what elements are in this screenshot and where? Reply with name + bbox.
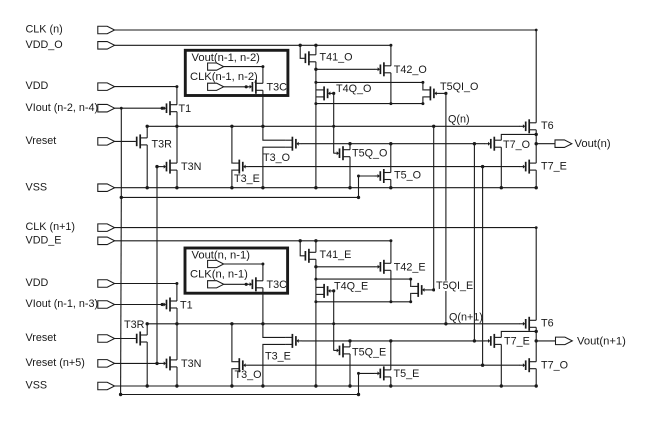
junction net A even x474 <box>473 339 476 342</box>
wire VDD_O rail <box>115 44 391 46</box>
junction rail x316 bottom (even) <box>314 300 317 303</box>
wire Vreset to T3R gate <box>115 140 136 142</box>
wire T5QI_E source corner <box>410 293 413 301</box>
wire T3_E drain to Q node <box>231 126 233 163</box>
junction T1/T3N on Q(n+1) <box>175 322 178 325</box>
junction on net A x474 <box>473 142 476 145</box>
junction CLK corner <box>535 29 538 32</box>
svg-text:Q(n+1): Q(n+1) <box>449 311 483 323</box>
wire CLK(n) to T6 drain <box>115 30 537 123</box>
transistor T5_E <box>383 366 385 380</box>
transistor T3_O (lower even) <box>238 358 240 372</box>
port VSS (even) <box>98 382 115 390</box>
port Vout(n) <box>555 140 572 148</box>
wire y103.6 to T5QI_O source <box>316 103 423 105</box>
wire T5QI_E gate stub <box>428 289 434 291</box>
junction V2 on Q(n+1) <box>444 322 447 325</box>
junction second rail left <box>120 196 123 199</box>
junction VDD corner <box>175 85 178 88</box>
junction T5Q_O source on VSS <box>348 186 351 189</box>
wire net A (T3_O gate to T7_O gate) <box>302 143 485 145</box>
junction T41_O drain on VDD_O <box>314 44 317 47</box>
junction T3_E drain on Q <box>230 125 233 128</box>
junction T4Q_O gate corner <box>332 92 335 95</box>
svg-text:T4Q_E: T4Q_E <box>334 280 368 292</box>
wire T3_O source to VSS <box>263 147 286 188</box>
junction T5QI_E drain corner <box>409 278 412 281</box>
svg-text:VDD: VDD <box>26 80 49 92</box>
transistor T3C (even) <box>255 277 257 291</box>
svg-text:VIout (n-1, n-3): VIout (n-1, n-3) <box>26 298 99 310</box>
svg-text:T3C: T3C <box>267 279 288 291</box>
wire VDD_E rail <box>115 240 391 242</box>
junction T3N gate / reset column <box>155 165 158 168</box>
wire T5_E drain to net A even <box>390 341 392 370</box>
svg-text:T3_E: T3_E <box>265 350 291 362</box>
junction T41_O gate on VDD_O <box>299 44 302 47</box>
junction on net B x482 <box>481 165 484 168</box>
port Vout(n-1, n-2) <box>208 63 224 70</box>
port VDD <box>98 83 115 91</box>
wire T3N drain to Q node (even) <box>176 324 178 360</box>
junction T5_O gate on second rail <box>357 196 360 199</box>
junction T4Q gate column on Q(n+1) <box>332 322 335 325</box>
junction CLK corner (even) <box>535 226 538 229</box>
junction T1 gate dot <box>161 107 164 110</box>
wire T41_E source down <box>315 259 317 267</box>
svg-text:T1: T1 <box>180 299 193 311</box>
junction V1 on Q <box>432 125 435 128</box>
wire T3N drain to Q node <box>176 126 178 163</box>
svg-text:T3R: T3R <box>124 319 145 331</box>
wire reset column T3N gates <box>156 167 158 364</box>
box pulse input group (even) <box>185 248 288 293</box>
transistor T1 (even) <box>169 298 171 312</box>
wire T5 gate column left <box>120 197 123 394</box>
wire T4Q_E gate column to T5Q_E gate <box>333 291 335 351</box>
junction Q(n+1) left end <box>146 322 149 325</box>
transistor T4Q_O <box>323 86 325 100</box>
junction T7_O source on VSS <box>500 186 503 189</box>
junction VIout / T5 gate column <box>120 107 123 110</box>
junction T1/T3N on Q <box>175 125 178 128</box>
svg-text:T3_E: T3_E <box>234 173 260 185</box>
junction rail x316 at y279 (even) <box>314 278 317 281</box>
wire T3R drain to Q node (even) <box>146 324 148 335</box>
svg-text:T5_E: T5_E <box>394 368 420 380</box>
wire T1 source to Q node <box>176 112 178 127</box>
wire T3N source to VSS (even) <box>176 367 178 386</box>
wire T7_E drain stub <box>535 162 537 164</box>
junction T5QI_O source corner <box>421 102 424 105</box>
wire T5Q_E source to VSS (even) <box>349 354 351 386</box>
wire T3_E drain to Q(n+1) <box>263 324 286 338</box>
svg-text:T41_O: T41_O <box>320 51 353 63</box>
transistor T7_E (middle even) <box>493 334 495 348</box>
svg-text:T6: T6 <box>541 120 554 132</box>
port CLK(n, n-1) <box>208 281 224 288</box>
junction T5_O gate corner <box>357 175 360 178</box>
svg-text:T5Q_O: T5Q_O <box>352 147 387 159</box>
svg-text:T42_O: T42_O <box>394 64 427 76</box>
svg-text:VIout (n-2, n-4): VIout (n-2, n-4) <box>26 102 99 114</box>
wire T3C drain up (even) <box>262 264 264 281</box>
transistor T5Q_O <box>342 146 344 160</box>
wire CLK(n+1) to T6 drain <box>115 228 537 321</box>
junction T7_E source end VSS <box>535 186 538 189</box>
junction T4Q_E gate corner <box>332 289 335 292</box>
junction T5Q_O drain on net A <box>348 142 351 145</box>
wire T1 source to Q node (even) <box>176 308 178 324</box>
wire T3C drain up <box>262 67 264 84</box>
wire T3N source to VSS <box>176 170 178 188</box>
transistor T6 <box>528 119 530 133</box>
wire rail x316 to VSS (even) <box>315 302 317 386</box>
wire T41_E source to T42_E gate <box>316 266 375 268</box>
wire Vout(n+1) <box>536 340 555 342</box>
junction Q left end T3R drain <box>146 125 149 128</box>
junction T3C gate dot <box>245 85 248 88</box>
junction T5_E gate on second rail (even) <box>357 393 360 396</box>
wire T5QI_E drain corner <box>410 279 413 286</box>
junction T3R source on VSS <box>146 186 149 189</box>
wire T5_O drain to net A <box>390 144 392 173</box>
junction T5Q_E drain <box>348 339 351 342</box>
junction T3C/T3_O on Q <box>261 125 264 128</box>
wire T3R source to VSS <box>146 145 148 188</box>
wire T7_O source to VSS <box>500 147 502 188</box>
svg-text:T3_O: T3_O <box>235 369 262 381</box>
junction T3N source on VSS (even) <box>175 384 178 387</box>
wire T6 drain stub <box>535 122 537 124</box>
transistor T42_E <box>383 260 385 274</box>
svg-text:VSS: VSS <box>26 181 48 193</box>
junction T41_O source <box>314 68 317 71</box>
junction T3C drain corner (even) <box>261 263 264 266</box>
transistor T3N (even) <box>169 356 171 370</box>
transistor T6 (even) <box>528 317 530 331</box>
svg-text:T7_O: T7_O <box>541 359 568 371</box>
transistor T5_O <box>383 169 385 183</box>
junction T5_E gate corner <box>357 372 360 375</box>
wire T5_E gate from second rail (even) <box>359 373 375 394</box>
port VDD_O <box>98 42 115 50</box>
wire T7_O source to VSS (even) <box>535 369 537 386</box>
wire y82 to T5QI_O drain <box>316 81 423 83</box>
junction T42_O drain on VDD_O <box>389 44 392 47</box>
wire T41_O source to T42_O gate <box>316 68 375 70</box>
wire T3_O drain to Q node <box>263 126 286 140</box>
wire Vout(n) <box>536 143 555 145</box>
wire Vout(n,n-1) to T3C drain (even) <box>224 263 263 265</box>
wire net A to T7_E(bottom) gate column <box>473 144 475 341</box>
junction T41_E source <box>314 265 317 268</box>
junction T5QI_O drain corner <box>421 81 424 84</box>
wire VDD to T1 drain <box>115 87 177 105</box>
junction T3N source on VSS <box>175 186 178 189</box>
junction T3_O source on VSS (even) <box>230 384 233 387</box>
svg-text:T3N: T3N <box>181 358 201 370</box>
svg-text:T41_E: T41_E <box>320 249 352 261</box>
port Vreset (n+5) <box>98 360 115 368</box>
svg-text:Vout(n-1, n-2): Vout(n-1, n-2) <box>192 52 261 64</box>
junction T4Q gate column on Q <box>332 125 335 128</box>
wire T3C source to Q node <box>262 90 264 126</box>
wire T7_E drain link (even) <box>501 331 536 337</box>
label T5QI_E <box>435 281 471 291</box>
wire CLK(n-1,n-2) to T3C gate <box>224 86 247 88</box>
transistor T3R <box>139 134 141 148</box>
wire T3N gate stub <box>157 166 161 168</box>
wire T5QI_O drain corner <box>422 82 425 90</box>
transistor T1 <box>169 101 171 115</box>
svg-text:T5_O: T5_O <box>394 170 421 182</box>
junction T5QI_O gate corner <box>444 92 447 95</box>
svg-text:T6: T6 <box>541 318 554 330</box>
wire Vout vertical (even) <box>535 331 537 361</box>
junction rail x316 on VSS (even) <box>314 384 317 387</box>
svg-text:Vout(n): Vout(n) <box>575 138 611 150</box>
wire Q(n) node <box>147 125 520 127</box>
wire T5Q_E drain to net A even <box>349 341 351 347</box>
wire VIout down to second rail <box>120 108 122 197</box>
svg-text:VDD_E: VDD_E <box>26 234 62 246</box>
transistor T3_O <box>291 137 293 151</box>
junction T42_O source <box>389 102 392 105</box>
junction T3_O source on VSS <box>261 186 264 189</box>
transistor T7_O <box>493 137 495 151</box>
wire CLK(n,n-1) to T3C gate (even) <box>224 283 247 285</box>
wire T41_E drain to VDD_E <box>315 241 317 253</box>
wire T42_O drain to VDD_O <box>390 45 392 66</box>
junction T3C/T3_E on Q(n+1) <box>261 322 264 325</box>
svg-text:T5QI_E: T5QI_E <box>436 280 473 292</box>
wire Vreset(n+5) to T3N gate <box>115 362 161 364</box>
transistor T3_E <box>238 160 240 174</box>
svg-text:T1: T1 <box>179 103 192 115</box>
port VIout (n-2, n-4) <box>98 104 115 112</box>
svg-text:VSS: VSS <box>26 380 48 392</box>
transistor T3_E (upper even) <box>291 334 293 348</box>
junction T1 gate dot (even) <box>161 303 164 306</box>
wire rail x316 down (even) <box>315 267 317 302</box>
wire T5_O gate from second rail <box>359 176 375 197</box>
wire T41_O drain to VDD_O <box>315 45 317 55</box>
junction net B even x482 <box>481 364 484 367</box>
wire Vout vertical <box>535 134 537 163</box>
junction rail x316 at y82 <box>314 81 317 84</box>
port CLK(n-1, n-2) <box>208 83 224 90</box>
svg-text:Vout(n+1): Vout(n+1) <box>577 335 626 347</box>
port VSS <box>98 184 115 192</box>
wire T41_O gate from VDD_O <box>300 45 304 58</box>
junction rail x316 on VSS <box>314 186 317 189</box>
junction T5_E drain on net A even <box>389 339 392 342</box>
wire Q(n+1) node <box>147 323 520 325</box>
port Vreset <box>98 138 115 146</box>
wire T3_E source to VSS (even) <box>263 344 286 386</box>
transistor T41_O <box>308 51 310 65</box>
junction T41_E drain on VDD_E <box>314 239 317 242</box>
junction T42_E drain on VDD_E <box>389 239 392 242</box>
svg-text:CLK(n-1, n-2): CLK(n-1, n-2) <box>190 71 258 83</box>
junction T41_E gate on VDD_E <box>299 239 302 242</box>
junction T6 source (even) <box>535 330 538 333</box>
wire T41_E gate from VDD_E <box>300 241 304 256</box>
wire T5_E source to VSS (even) <box>390 377 392 386</box>
wire T6 source down <box>535 130 537 135</box>
transistor T5QI_E <box>417 283 419 297</box>
wire T7_E source to VSS <box>535 170 537 188</box>
port CLK (n+1) <box>98 224 115 232</box>
svg-text:T5Q_E: T5Q_E <box>352 347 386 359</box>
junction T5QI_E source corner <box>409 300 412 303</box>
wire net B (T3_E gate to T7_E gate) <box>249 166 520 168</box>
wire Vout(n-1,n-2) to T3C drain <box>224 66 263 68</box>
port Vout(n, n-1) <box>208 260 224 267</box>
port VIout (n-1, n-3) <box>98 301 115 309</box>
wire T5_O source to VSS <box>390 180 392 188</box>
wire net B to T7_O(bottom) gate column <box>482 167 484 366</box>
wire VSS rail (even) <box>115 385 537 387</box>
svg-text:T42_E: T42_E <box>394 262 426 274</box>
wire VSS rail <box>115 187 537 189</box>
junction T3C gate dot (even) <box>245 283 248 286</box>
port Vout(n+1) <box>556 337 573 345</box>
svg-text:CLK (n): CLK (n) <box>26 24 63 36</box>
wire VIout to T1 gate (even) <box>115 304 161 306</box>
junction T5_O source on VSS <box>389 186 392 189</box>
wire T6 source down (even) <box>535 327 537 331</box>
svg-text:T3C: T3C <box>267 82 288 94</box>
svg-text:VDD_O: VDD_O <box>26 39 63 51</box>
junction T3_E source on VSS (even) <box>261 384 264 387</box>
wire VDD to T1 drain (even) <box>115 284 177 302</box>
box pulse input group (odd) <box>185 50 288 95</box>
wire T3_O drain to Q(n+1) <box>231 324 233 362</box>
transistor T3N <box>169 160 171 174</box>
junction T5_E source on VSS (even) <box>389 384 392 387</box>
svg-text:T3R: T3R <box>152 138 173 150</box>
junction second rail left (even) <box>119 393 122 396</box>
junction Vreset(n+5) reset column <box>155 362 158 365</box>
wire T42_E drain to VDD_E <box>390 241 392 263</box>
svg-text:Vreset: Vreset <box>26 332 57 344</box>
wire VIout to T1 gate <box>115 107 161 109</box>
wire T7_O drain link <box>501 134 536 140</box>
svg-text:VDD: VDD <box>26 277 49 289</box>
wire Vreset to T3R gate (even) <box>115 338 136 340</box>
port Vreset (even) <box>98 335 115 343</box>
wire y301.8 to T5QI_E source <box>316 301 411 303</box>
svg-text:Vout(n, n-1): Vout(n, n-1) <box>192 249 251 261</box>
svg-text:T4Q_O: T4Q_O <box>336 83 371 95</box>
junction T5_O drain on net A <box>389 142 392 145</box>
wire T42_O source down <box>390 73 392 104</box>
port VDD (even) <box>98 280 115 288</box>
transistor T4Q_E <box>323 284 325 298</box>
junction Vout tap <box>535 142 538 145</box>
wire second rail (even) <box>121 394 359 396</box>
svg-text:T5QI_O: T5QI_O <box>440 81 478 93</box>
wire T3R drain to Q node <box>146 126 148 138</box>
wire T3C source to Q node (even) <box>262 288 264 324</box>
transistor T41_E <box>308 249 310 263</box>
wire rail x316 to VSS <box>315 104 317 188</box>
wire T41_O source down <box>315 62 317 70</box>
wire T3_E source to VSS <box>231 170 233 188</box>
junction T6 source <box>535 133 538 136</box>
wire T5QI_O source corner <box>422 97 425 104</box>
svg-text:CLK (n+1): CLK (n+1) <box>26 221 76 233</box>
wire V2 T5QI_O gate to Q(n+1) <box>445 93 447 323</box>
wire T5Q_O drain to net A <box>349 144 351 150</box>
junction T7_E source on VSS (even) <box>500 384 503 387</box>
port VDD_E <box>98 237 115 245</box>
junction rail x316 bottom <box>314 102 317 105</box>
wire net B even (T3_O gate to T7_O gate) <box>249 364 520 366</box>
svg-text:Vreset: Vreset <box>26 135 57 147</box>
transistor T5Q_E <box>342 343 344 357</box>
wire T5Q_O source to VSS <box>349 157 351 188</box>
svg-text:Vreset (n+5): Vreset (n+5) <box>26 357 85 369</box>
wire T5QI_O gate stub <box>440 92 446 94</box>
svg-text:Q(n): Q(n) <box>448 113 470 125</box>
svg-text:T7_E: T7_E <box>504 335 530 347</box>
svg-text:CLK(n, n-1): CLK(n, n-1) <box>190 269 248 281</box>
wire rail x316 down <box>315 69 317 103</box>
transistor T7_O (lower even) <box>528 358 530 372</box>
transistor T3R (even) <box>139 332 141 346</box>
transistor T5QI_O <box>429 86 431 100</box>
svg-text:T3_O: T3_O <box>263 152 290 164</box>
wire second rail (T5 gates) <box>121 196 358 198</box>
junction T3_E source on VSS <box>230 186 233 189</box>
svg-text:T7_E: T7_E <box>541 161 567 173</box>
junction T3_O drain on Q(n+1) <box>230 322 233 325</box>
junction T3C drain corner <box>261 65 264 68</box>
transistor T42_O <box>383 62 385 76</box>
svg-text:T3N: T3N <box>181 161 201 173</box>
transistor T3C <box>255 80 257 94</box>
junction VDD corner (even) <box>175 282 178 285</box>
wire V1 Q(n) to T5QI_E gate <box>433 126 435 290</box>
port CLK (n) <box>98 26 115 34</box>
wire T3_O source to VSS (even) <box>231 369 233 386</box>
wire y279 to T5QI_E drain <box>316 278 411 280</box>
wire T3R source to VSS (even) <box>146 342 148 386</box>
junction Vout tap (even) <box>535 339 538 342</box>
wire T42_E source down <box>390 270 392 302</box>
svg-text:T7_O: T7_O <box>503 139 530 151</box>
wire T4Q_O gate column to T5Q_O gate <box>333 93 335 153</box>
junction T7_O source end VSS (even) <box>535 384 538 387</box>
junction T5QI_E gate corner <box>432 288 435 291</box>
junction T5Q_E source on VSS (even) <box>348 384 351 387</box>
junction T42_E source <box>389 300 392 303</box>
transistor T7_E <box>528 160 530 174</box>
wire T7_E source to VSS (even) <box>500 344 502 386</box>
wire net A even (T3_E gate to T7_E gate) <box>302 340 485 342</box>
junction T3R source on VSS (even) <box>146 384 149 387</box>
